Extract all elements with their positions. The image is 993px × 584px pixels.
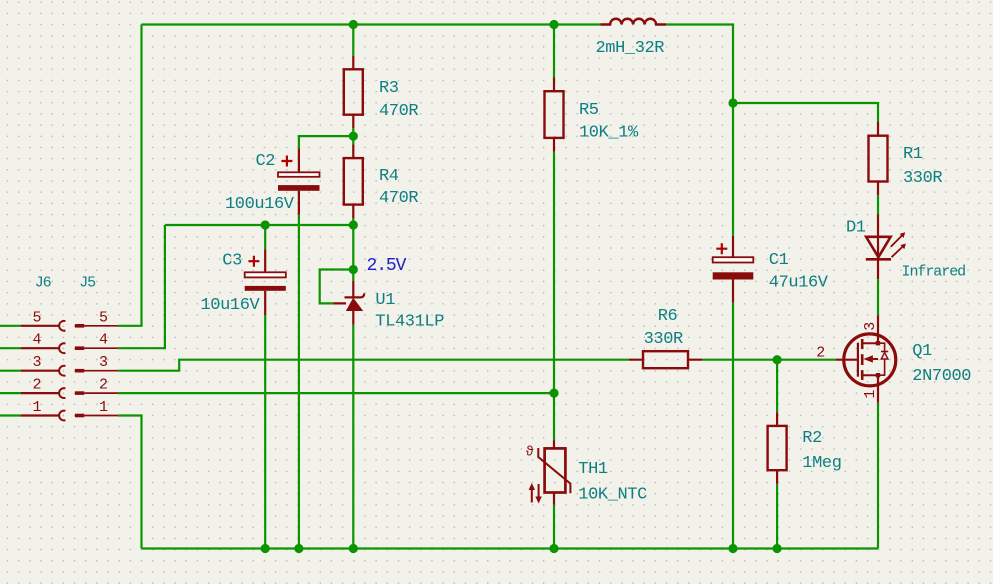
svg-text:J6: J6 bbox=[35, 275, 52, 292]
svg-text:3: 3 bbox=[32, 354, 41, 371]
svg-text:3: 3 bbox=[99, 354, 108, 371]
svg-text:10K_1%: 10K_1% bbox=[579, 124, 639, 143]
svg-text:2: 2 bbox=[816, 345, 825, 362]
svg-text:2N7000: 2N7000 bbox=[912, 367, 971, 386]
svg-text:C2: C2 bbox=[256, 152, 276, 171]
svg-text:470R: 470R bbox=[379, 189, 418, 208]
svg-text:1: 1 bbox=[32, 399, 41, 416]
svg-text:47u16V: 47u16V bbox=[769, 274, 829, 293]
svg-text:1Meg: 1Meg bbox=[802, 454, 841, 473]
svg-text:330R: 330R bbox=[644, 330, 683, 349]
svg-text:Infrared: Infrared bbox=[902, 264, 966, 281]
svg-text:TH1: TH1 bbox=[578, 460, 608, 479]
svg-text:5: 5 bbox=[32, 309, 41, 326]
svg-text:R4: R4 bbox=[379, 167, 399, 186]
svg-text:2.5V: 2.5V bbox=[367, 256, 407, 276]
svg-text:TL431LP: TL431LP bbox=[375, 313, 444, 332]
svg-text:100u16V: 100u16V bbox=[225, 195, 295, 214]
svg-text:2: 2 bbox=[99, 377, 108, 394]
svg-text:R1: R1 bbox=[903, 145, 923, 164]
svg-text:1: 1 bbox=[862, 390, 879, 399]
svg-text:10u16V: 10u16V bbox=[201, 296, 261, 315]
svg-text:10K_NTC: 10K_NTC bbox=[578, 486, 647, 505]
svg-text:Q1: Q1 bbox=[912, 342, 932, 361]
svg-text:C1: C1 bbox=[769, 251, 789, 270]
svg-text:3: 3 bbox=[862, 322, 879, 331]
svg-text:5: 5 bbox=[99, 309, 108, 326]
svg-text:1: 1 bbox=[99, 399, 108, 416]
svg-text:R6: R6 bbox=[658, 307, 678, 326]
svg-text:2mH_32R: 2mH_32R bbox=[596, 39, 665, 58]
svg-text:D1: D1 bbox=[846, 219, 866, 238]
svg-text:ϑ: ϑ bbox=[526, 445, 534, 461]
svg-text:R3: R3 bbox=[379, 79, 399, 98]
svg-text:4: 4 bbox=[32, 332, 41, 349]
svg-text:470R: 470R bbox=[379, 102, 418, 121]
svg-text:4: 4 bbox=[99, 332, 108, 349]
svg-text:2: 2 bbox=[32, 377, 41, 394]
svg-text:R2: R2 bbox=[802, 429, 822, 448]
svg-text:J5: J5 bbox=[79, 275, 96, 292]
svg-text:U1: U1 bbox=[375, 291, 395, 310]
svg-text:R5: R5 bbox=[579, 101, 599, 120]
svg-text:330R: 330R bbox=[903, 169, 942, 188]
svg-text:C3: C3 bbox=[222, 252, 242, 271]
